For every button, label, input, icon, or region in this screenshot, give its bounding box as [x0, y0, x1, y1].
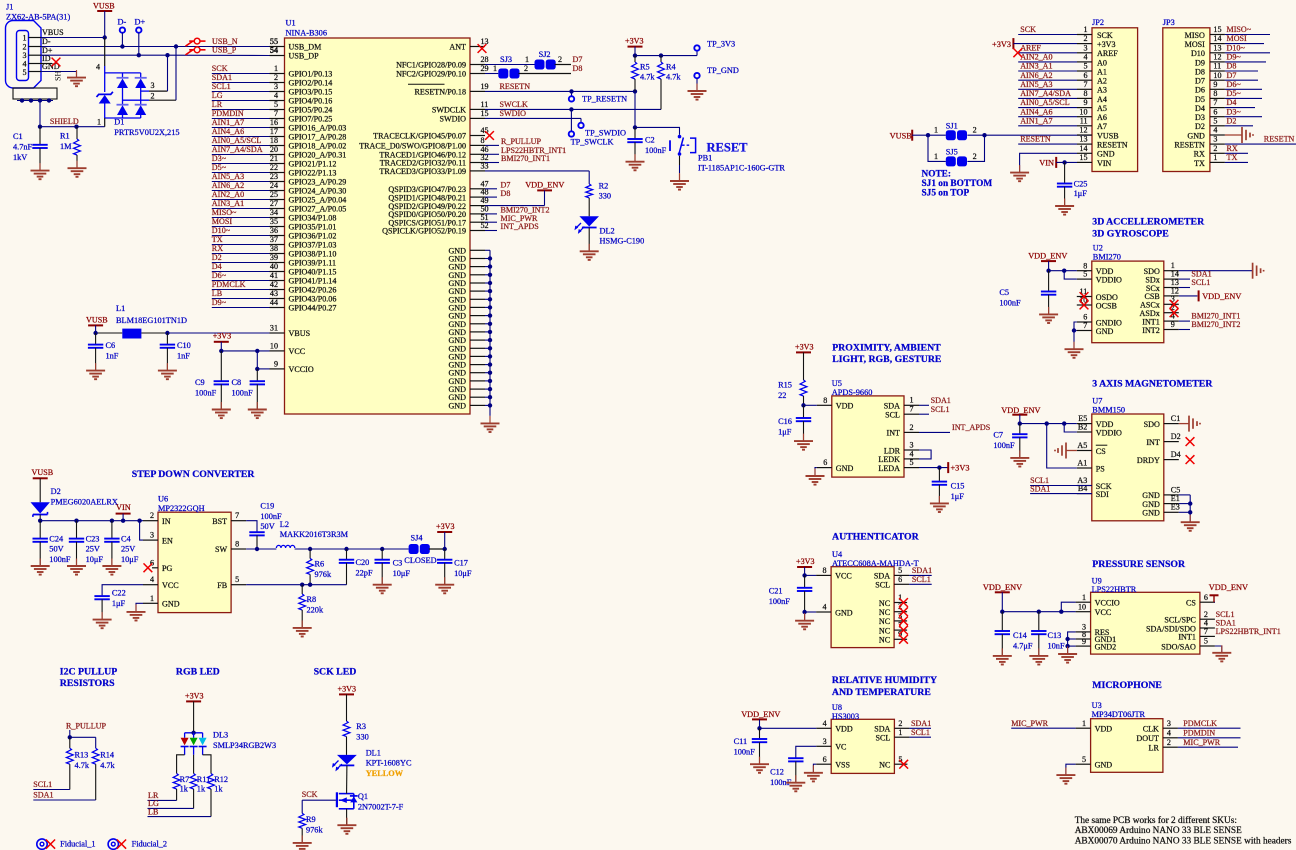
svg-text:10μF: 10μF — [393, 569, 411, 578]
svg-text:2: 2 — [898, 719, 902, 728]
svg-text:NOTE:: NOTE: — [922, 169, 951, 179]
ground below C1 — [31, 163, 50, 179]
svg-text:R_PULLUP: R_PULLUP — [66, 721, 107, 730]
U9 right pins — [1146, 593, 1215, 652]
svg-text:43: 43 — [270, 289, 278, 298]
wires DL3 to resistors — [177, 755, 211, 774]
svg-text:LDR: LDR — [884, 446, 901, 455]
U1 GND pins and ground bus — [448, 246, 492, 416]
power VDD_ENV at U2 — [1028, 252, 1067, 271]
svg-text:D1: D1 — [114, 118, 124, 127]
no-connect X on J1 ID pin — [41, 58, 60, 67]
header JP3 body — [1163, 18, 1210, 172]
svg-text:PDMCLK: PDMCLK — [212, 280, 246, 289]
svg-text:TRACECLK/GPIO45/P0.07: TRACECLK/GPIO45/P0.07 — [373, 132, 466, 141]
svg-text:GPIO41/P1.14: GPIO41/P1.14 — [289, 277, 337, 286]
svg-text:INT1: INT1 — [1178, 633, 1196, 642]
resistor R12 1k — [208, 774, 228, 817]
wire D- / USB_N to U1 — [41, 44, 270, 48]
IC U4 ATECC608A-MAHDA-T body — [831, 550, 919, 647]
svg-text:SCK: SCK — [302, 790, 318, 799]
svg-text:VUSB: VUSB — [32, 468, 54, 477]
resistor R2 330 — [586, 182, 611, 217]
svg-text:GND: GND — [1142, 491, 1160, 500]
svg-text:U7: U7 — [1092, 396, 1102, 405]
svg-text:D9~: D9~ — [212, 298, 227, 307]
svg-text:GPIO21/P1.12: GPIO21/P1.12 — [289, 160, 337, 169]
svg-text:NC: NC — [879, 617, 890, 626]
svg-text:LEDK: LEDK — [878, 455, 900, 464]
svg-text:MP2322GQH: MP2322GQH — [158, 504, 205, 513]
wire and net label AIN4_A6 to U1 — [212, 127, 270, 136]
wire VDDIO branch U2 — [1064, 271, 1077, 279]
svg-text:VIN: VIN — [1039, 159, 1054, 168]
svg-text:BMI270_INT2: BMI270_INT2 — [1191, 320, 1240, 329]
net label MIC_PWR on U1 pin51 — [485, 214, 538, 223]
svg-text:40: 40 — [270, 262, 278, 271]
svg-text:10: 10 — [1079, 107, 1087, 116]
wire U9 SDO/SAO to ground — [1215, 646, 1222, 653]
svg-text:SCL1: SCL1 — [911, 728, 930, 737]
net label INT_APDS on U1 pin52 — [485, 222, 539, 231]
svg-text:RESET: RESET — [707, 141, 749, 155]
svg-text:GPIO5/P0.24: GPIO5/P0.24 — [289, 106, 333, 115]
svg-text:C4: C4 — [121, 534, 132, 543]
svg-text:1: 1 — [150, 594, 154, 603]
svg-text:AREF: AREF — [1097, 49, 1118, 58]
wire and net label AIN6_A2 to JP2 pin 6 — [1018, 71, 1077, 80]
svg-text:AND TEMPERATURE: AND TEMPERATURE — [832, 687, 931, 698]
svg-text:C5: C5 — [999, 288, 1009, 297]
svg-text:GPIO39/P1.11: GPIO39/P1.11 — [289, 259, 337, 268]
svg-text:GPIO18_A/P0.02: GPIO18_A/P0.02 — [289, 142, 347, 151]
svg-text:PMEG6020AELRX: PMEG6020AELRX — [51, 498, 118, 507]
svg-text:976k: 976k — [306, 826, 323, 835]
svg-text:2: 2 — [274, 73, 278, 82]
svg-text:SCL1: SCL1 — [1191, 278, 1210, 287]
no-connect X on U1 pin 45 — [485, 131, 494, 140]
svg-text:1kV: 1kV — [13, 153, 27, 162]
section title RGB LED — [176, 666, 220, 677]
svg-text:2: 2 — [151, 92, 155, 101]
svg-text:1: 1 — [1083, 25, 1087, 34]
power symbol VUSB at D2 — [32, 468, 54, 502]
svg-text:3: 3 — [910, 440, 914, 449]
svg-text:R5: R5 — [640, 62, 650, 71]
svg-text:MISO~: MISO~ — [212, 208, 237, 217]
svg-text:SDA: SDA — [874, 572, 890, 581]
svg-text:D10~: D10~ — [212, 226, 231, 235]
U3 right pins — [1136, 719, 1177, 753]
svg-text:GPIO4/P0.16: GPIO4/P0.16 — [289, 97, 333, 106]
sideways ground at JP3 pin4 — [1242, 127, 1253, 143]
svg-text:SCL: SCL — [876, 734, 891, 743]
svg-text:100nF: 100nF — [993, 441, 1015, 450]
svg-text:U8: U8 — [832, 703, 842, 712]
section title 3D ACCELLEROMETER / 3D GYROSCOPE — [1092, 217, 1205, 240]
svg-text:9: 9 — [1083, 98, 1087, 107]
resistor R13 4.7k — [66, 737, 89, 789]
svg-text:SCK: SCK — [1020, 25, 1036, 34]
svg-text:6: 6 — [823, 458, 827, 467]
wire +3V3 rail to TP_3V3 — [633, 51, 697, 58]
ground at U8 VSS — [804, 765, 823, 781]
svg-text:VUSB: VUSB — [86, 315, 108, 324]
U1 left pin stubs, numbers and names — [270, 37, 347, 313]
svg-text:4.7μF: 4.7μF — [1013, 641, 1033, 650]
svg-text:4.7k: 4.7k — [640, 72, 655, 81]
svg-text:GND: GND — [836, 464, 854, 473]
ground below C11 — [750, 757, 769, 773]
svg-text:18: 18 — [270, 136, 278, 145]
wire +3V3 to U4 VCC — [802, 573, 816, 577]
testpoint D- — [118, 18, 127, 47]
svg-text:C1: C1 — [1171, 414, 1180, 423]
svg-text:R7: R7 — [180, 775, 190, 784]
wire and net label SCK to JP2 pin 1 — [1018, 25, 1077, 34]
svg-text:1: 1 — [274, 64, 278, 73]
svg-text:BST: BST — [212, 517, 227, 526]
wire VDDIO branch U7 — [1064, 424, 1077, 432]
svg-text:HS3003: HS3003 — [832, 712, 859, 721]
svg-text:SCL/SPC: SCL/SPC — [1164, 616, 1196, 625]
svg-text:KPT-1608YC: KPT-1608YC — [366, 759, 412, 768]
wire and net label RESETN on JP3 pin3 — [1225, 135, 1296, 144]
section title STEP DOWN CONVERTER — [132, 469, 256, 480]
svg-text:C6: C6 — [106, 341, 116, 350]
svg-text:1: 1 — [1082, 593, 1086, 602]
svg-text:16: 16 — [270, 118, 278, 127]
svg-text:6: 6 — [1213, 107, 1217, 116]
svg-text:2N7002T-7-F: 2N7002T-7-F — [358, 803, 404, 812]
J1 pin names and stubs — [29, 28, 64, 71]
wire U7 GND pins to ground — [1179, 495, 1193, 522]
svg-text:VBUS: VBUS — [42, 28, 64, 37]
svg-text:D6: D6 — [1195, 86, 1205, 95]
svg-text:QSPICLK/GPIO52/P0.19: QSPICLK/GPIO52/P0.19 — [382, 227, 466, 236]
svg-text:NC: NC — [879, 636, 890, 645]
svg-text:D4: D4 — [1195, 104, 1205, 113]
testpoint TP_SWCLK — [569, 109, 614, 146]
svg-text:GPIO42/P0.26: GPIO42/P0.26 — [289, 286, 337, 295]
svg-text:10: 10 — [270, 342, 278, 351]
svg-text:5: 5 — [274, 100, 278, 109]
wire D1 pin3 to D+ — [141, 55, 168, 91]
svg-text:1: 1 — [97, 118, 101, 127]
wire and net label SDA1 on U4 SDA — [909, 566, 932, 575]
wire VDD rail to U2 — [1046, 269, 1076, 273]
svg-text:29: 29 — [481, 64, 489, 73]
svg-text:SCL1: SCL1 — [931, 405, 950, 414]
svg-text:100nF: 100nF — [645, 146, 667, 155]
svg-text:PG: PG — [162, 564, 173, 573]
svg-text:5: 5 — [1213, 116, 1217, 125]
net label SHIELD — [40, 117, 105, 129]
svg-text:1μF: 1μF — [112, 599, 126, 608]
wire and net label LPS22HBTR_INT1 on U9 — [1216, 627, 1281, 636]
svg-text:GPIO27_A/P0.05: GPIO27_A/P0.05 — [289, 205, 347, 214]
svg-text:TRACE_D0/SWO/GPIO8/P1.00: TRACE_D0/SWO/GPIO8/P1.00 — [359, 142, 466, 151]
svg-text:C10: C10 — [177, 341, 191, 350]
ground below C14 — [993, 648, 1012, 664]
wire and net label LG — [148, 799, 194, 808]
svg-text:38: 38 — [270, 244, 278, 253]
svg-text:4: 4 — [1167, 728, 1171, 737]
U1 right pin names — [359, 43, 466, 236]
wire Q1 source to ground — [346, 809, 348, 825]
svg-text:10μF: 10μF — [121, 555, 139, 564]
svg-text:C9: C9 — [195, 378, 205, 387]
svg-text:GPIO2/P0.14: GPIO2/P0.14 — [289, 79, 333, 88]
svg-text:5: 5 — [1082, 755, 1086, 764]
svg-text:VUSB: VUSB — [93, 2, 115, 11]
svg-text:Q1: Q1 — [358, 792, 368, 801]
svg-text:7: 7 — [274, 109, 278, 118]
svg-text:IT-1185AP1C-160G-GTR: IT-1185AP1C-160G-GTR — [698, 164, 785, 173]
svg-text:SMLP34RGB2W3: SMLP34RGB2W3 — [213, 741, 276, 750]
wire net BMI270_INT1 on U1 pin32 — [485, 154, 550, 163]
svg-text:23: 23 — [270, 172, 278, 181]
svg-text:C24: C24 — [49, 534, 64, 543]
svg-text:BMI270: BMI270 — [1093, 253, 1121, 262]
wire and net label D10~ on JP3 pin 13 — [1225, 43, 1270, 52]
svg-text:SCL: SCL — [875, 581, 890, 590]
svg-text:SJ5 on TOP: SJ5 on TOP — [922, 188, 970, 198]
wire and net label RX to U1 — [212, 244, 270, 253]
svg-text:3D GYROSCOPE: 3D GYROSCOPE — [1092, 228, 1169, 239]
svg-text:SDA: SDA — [874, 725, 890, 734]
svg-text:AIN1_A7: AIN1_A7 — [1020, 116, 1052, 125]
svg-text:2: 2 — [1167, 738, 1171, 747]
ground below C8 — [248, 402, 267, 418]
svg-text:SWCLK: SWCLK — [500, 100, 528, 109]
svg-text:D6~: D6~ — [212, 271, 227, 280]
svg-text:4.7k: 4.7k — [75, 761, 90, 770]
svg-text:55: 55 — [270, 37, 278, 46]
svg-text:1: 1 — [525, 55, 529, 64]
wire and net label AIN1_A7 to JP2 pin 11 — [1018, 116, 1077, 125]
net label USB_N — [212, 37, 278, 46]
wire and net label D3~ on JP3 pin 6 — [1225, 107, 1262, 116]
svg-text:USB_DM: USB_DM — [289, 43, 322, 52]
svg-text:LPS22HBTR_INT1: LPS22HBTR_INT1 — [1216, 627, 1281, 636]
wire U4 GND row — [802, 610, 816, 621]
solder jumper SJ2 — [525, 50, 562, 70]
wire and net label D7 on JP3 pin 10 — [1225, 71, 1258, 80]
svg-text:HSMG-C190: HSMG-C190 — [600, 237, 645, 246]
svg-text:D3: D3 — [1195, 113, 1205, 122]
svg-text:GPIO16_A/P0.03: GPIO16_A/P0.03 — [289, 124, 347, 133]
svg-text:+3V3: +3V3 — [795, 342, 814, 351]
svg-text:LR: LR — [1149, 744, 1160, 753]
svg-text:SDO: SDO — [1144, 420, 1160, 429]
svg-text:3: 3 — [823, 737, 827, 746]
svg-text:Fiducial_1: Fiducial_1 — [60, 840, 96, 849]
wire and net label RESETN to JP2 pin 13 — [1018, 135, 1077, 144]
ground below U1 — [481, 416, 500, 432]
svg-text:R14: R14 — [100, 750, 115, 759]
svg-text:C7: C7 — [993, 430, 1003, 439]
svg-text:TX: TX — [1227, 153, 1238, 162]
svg-text:PDMDIN: PDMDIN — [1183, 728, 1215, 737]
no-connect X on U6 PG — [144, 563, 153, 572]
ground below C25 — [1055, 199, 1074, 215]
svg-text:AIN5_A3: AIN5_A3 — [1020, 80, 1052, 89]
svg-text:NINA-B306: NINA-B306 — [286, 28, 327, 37]
svg-text:C13: C13 — [1048, 631, 1062, 640]
svg-text:A5: A5 — [1097, 104, 1107, 113]
svg-text:TP_SWCLK: TP_SWCLK — [571, 138, 614, 147]
svg-text:GPIO23_A/P0.29: GPIO23_A/P0.29 — [289, 178, 347, 187]
ground below C13 — [1029, 648, 1048, 664]
wire VIN rail to U6 IN — [38, 519, 143, 523]
wire and net label D10~ to U1 — [212, 226, 270, 235]
svg-text:RX: RX — [1227, 144, 1238, 153]
svg-text:C1: C1 — [13, 132, 23, 141]
svg-text:C20: C20 — [356, 558, 370, 567]
svg-text:LPS22HBTR: LPS22HBTR — [1092, 585, 1137, 594]
svg-text:D8: D8 — [1227, 62, 1237, 71]
svg-text:8: 8 — [235, 540, 239, 549]
capacitor C24 100nF 50V — [33, 521, 71, 566]
svg-text:NC: NC — [879, 626, 890, 635]
svg-text:A1: A1 — [1097, 67, 1107, 76]
svg-text:VDD_ENV: VDD_ENV — [983, 583, 1022, 592]
wire U9 RES GND1 GND2 to ground — [1065, 632, 1075, 654]
svg-text:14: 14 — [1079, 144, 1087, 153]
svg-text:1nF: 1nF — [106, 352, 119, 361]
wire shield to SHIELD net — [38, 101, 42, 129]
resistor R6 976k — [307, 549, 332, 585]
wire SWDIO from U1 pin15 — [485, 109, 581, 119]
wire and net label SCL1 on U2 SCx — [1179, 278, 1211, 287]
capacitor C21 100nF — [769, 575, 813, 612]
svg-text:NFC2/GPIO29/P0.10: NFC2/GPIO29/P0.10 — [396, 70, 466, 79]
svg-text:10nF: 10nF — [1048, 641, 1065, 650]
svg-text:ZX62-AB-5PA(31): ZX62-AB-5PA(31) — [6, 13, 70, 22]
svg-text:C19: C19 — [260, 501, 274, 510]
svg-text:R1: R1 — [60, 132, 70, 141]
svg-text:AIN2_A0: AIN2_A0 — [1020, 53, 1052, 62]
power VDD_ENV to U1 pin49 — [485, 180, 564, 205]
svg-text:C11: C11 — [734, 737, 748, 746]
section title AUTHENTICATOR — [832, 532, 920, 543]
svg-text:JP3: JP3 — [1163, 18, 1175, 27]
svg-text:D2: D2 — [1171, 432, 1181, 441]
svg-text:RESETN/P0.18: RESETN/P0.18 — [415, 88, 467, 97]
svg-text:1M: 1M — [60, 142, 72, 151]
svg-text:SJ4: SJ4 — [411, 533, 424, 542]
J1 SH shield pin label — [54, 70, 63, 81]
capacitor C12 100nF on VC — [770, 746, 816, 787]
svg-text:NC: NC — [879, 608, 890, 617]
svg-text:A6: A6 — [1097, 113, 1107, 122]
wire and net label SDA1 on U2 SDx — [1179, 270, 1212, 279]
power VUSB at SJ1 — [890, 130, 913, 141]
svg-text:TRACED3/GPIO33/P1.09: TRACED3/GPIO33/P1.09 — [379, 167, 466, 176]
capacitor C17 10uF — [437, 549, 472, 585]
svg-text:ANT: ANT — [449, 43, 466, 52]
wire RESETN from U1 pin19 — [485, 82, 637, 94]
svg-text:VCCIO: VCCIO — [289, 365, 314, 374]
wire and net label LR — [148, 791, 177, 800]
power +3V3 at R3 — [338, 684, 357, 721]
capacitor C13 10nF — [1031, 612, 1065, 656]
power +3V3 at U4 — [796, 557, 815, 576]
svg-text:AIN5_A3: AIN5_A3 — [212, 172, 244, 181]
section title SCK LED — [314, 666, 357, 677]
svg-text:VDD: VDD — [1095, 725, 1113, 734]
svg-text:GPIO34/P1.08: GPIO34/P1.08 — [289, 214, 337, 223]
no-connect X on AREF wire — [1013, 48, 1022, 57]
svg-text:NC: NC — [879, 599, 890, 608]
solder jumper SJ5 — [934, 148, 977, 167]
wire and net label AIN3_A1 to U1 — [212, 199, 270, 208]
capacitor C25 1uF — [1057, 162, 1088, 206]
svg-text:VDD: VDD — [836, 402, 854, 411]
ESD protection D1 PRTR5V0U2X,215 — [96, 38, 180, 137]
svg-text:FB: FB — [217, 581, 227, 590]
svg-text:INT: INT — [887, 429, 901, 438]
svg-text:SCL1: SCL1 — [912, 575, 931, 584]
svg-text:41: 41 — [270, 271, 278, 280]
power VDD_ENV at U7 — [1001, 406, 1040, 424]
power symbol VIN — [116, 503, 131, 521]
wire U3 GND to ground — [1066, 764, 1076, 775]
wire D1 pin2 to D- — [123, 47, 177, 101]
svg-text:E1: E1 — [1171, 494, 1180, 503]
svg-text:1: 1 — [934, 126, 938, 135]
wire and net label SCL1 on U5 SCL — [919, 405, 950, 414]
svg-text:1: 1 — [1082, 719, 1086, 728]
svg-text:VDDIO: VDDIO — [1096, 275, 1122, 284]
svg-text:L1: L1 — [116, 304, 125, 313]
resistor R9 976k — [299, 813, 324, 843]
svg-text:U1: U1 — [286, 19, 296, 28]
power VDD_ENV right of U9 on CS — [1209, 583, 1248, 602]
wire and net label SCL1 on U8 SCL — [909, 728, 931, 737]
wire and net label SCL1 to U7 SCK — [1030, 476, 1092, 485]
svg-text:STEP DOWN CONVERTER: STEP DOWN CONVERTER — [132, 469, 256, 480]
svg-text:RESISTORS: RESISTORS — [60, 678, 115, 689]
svg-text:100nF: 100nF — [260, 512, 282, 521]
capacitor C3 10uF — [375, 549, 411, 585]
svg-text:+3V3: +3V3 — [213, 332, 232, 341]
svg-text:5: 5 — [898, 566, 902, 575]
svg-text:3 AXIS MAGNETOMETER: 3 AXIS MAGNETOMETER — [1092, 379, 1213, 390]
capacitor C16 1uF — [778, 405, 811, 441]
ground below C5 — [1039, 307, 1058, 323]
svg-text:D7: D7 — [1227, 71, 1237, 80]
svg-text:DOUT: DOUT — [1136, 734, 1159, 743]
connector J1 ZX62-AB-5PA(31) — [6, 3, 71, 89]
svg-text:R13: R13 — [75, 750, 89, 759]
J1 shield bracket and pins — [13, 88, 57, 103]
svg-text:8: 8 — [823, 566, 827, 575]
svg-text:VDDIO: VDDIO — [1096, 428, 1122, 437]
U1 power pins VBUS VCC VCCIO — [270, 324, 314, 374]
svg-text:MICROPHONE: MICROPHONE — [1092, 680, 1162, 691]
svg-text:D7: D7 — [1195, 77, 1205, 86]
testpoint TP_GND — [694, 66, 739, 91]
capacitor C8 100nF — [232, 369, 266, 410]
svg-text:4: 4 — [150, 575, 154, 584]
J1 pin numbers — [22, 34, 26, 78]
net label USB_P — [212, 46, 278, 55]
svg-text:LEDA: LEDA — [878, 464, 900, 473]
svg-text:6: 6 — [1083, 71, 1087, 80]
svg-text:330: 330 — [356, 733, 368, 742]
